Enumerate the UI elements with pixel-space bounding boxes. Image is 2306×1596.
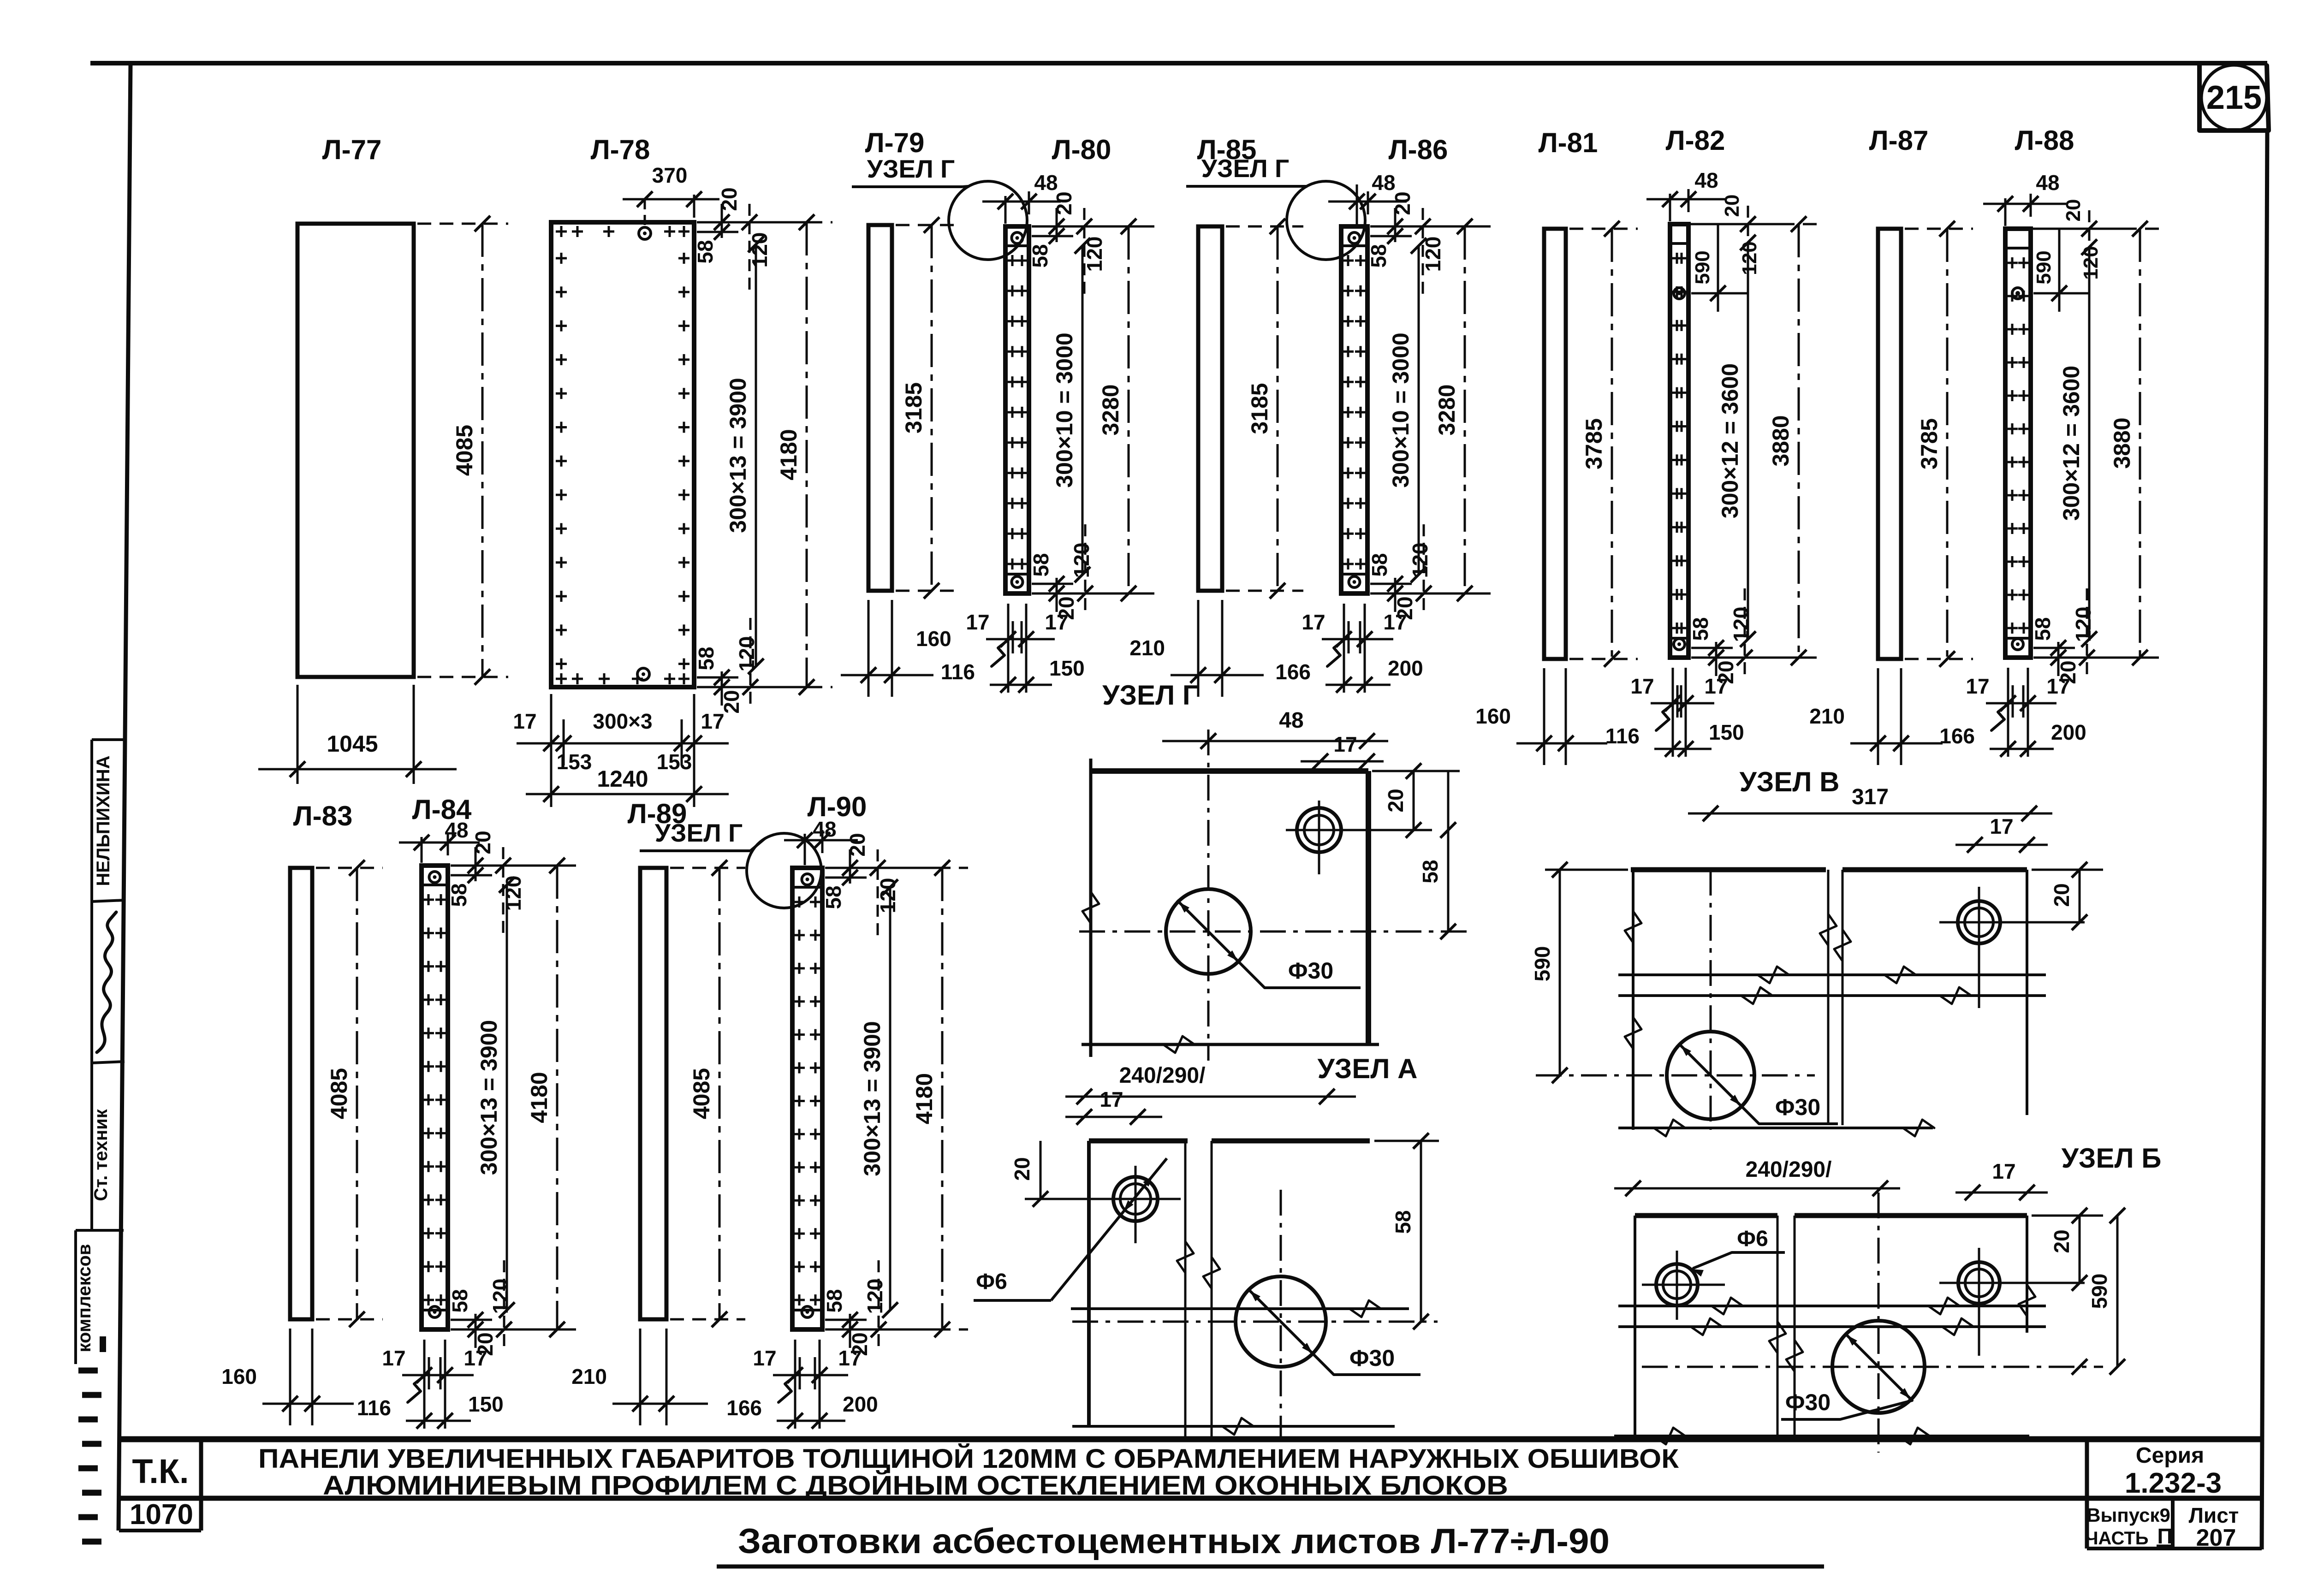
svg-text:Л-80: Л-80 xyxy=(1052,134,1111,165)
svg-text:48: 48 xyxy=(2036,171,2059,195)
cluster bottom-right L-84 xyxy=(451,1329,564,1331)
left margin wider box xyxy=(76,1229,124,1232)
svg-text:300×10 = 3000: 300×10 = 3000 xyxy=(1388,332,1414,487)
svg-text:17: 17 xyxy=(838,1346,862,1370)
svg-text:НЕЛЬПИХИНА: НЕЛЬПИХИНА xyxy=(93,755,113,886)
uzel B center vertical xyxy=(1878,1193,1880,1453)
svg-text:4180: 4180 xyxy=(776,429,802,480)
svg-text:4085: 4085 xyxy=(326,1068,352,1119)
bottom dims for L-88 xyxy=(2007,668,2009,757)
uzel A big hole F30 xyxy=(1236,1276,1326,1367)
svg-text:Ф30: Ф30 xyxy=(1775,1094,1820,1120)
svg-text:17: 17 xyxy=(1045,610,1068,634)
panel L-90 xyxy=(792,868,822,1329)
svg-text:17: 17 xyxy=(1383,610,1407,634)
svg-text:17: 17 xyxy=(1704,674,1728,698)
uzel B dim 590 xyxy=(2116,1216,2119,1367)
svg-text:Серия: Серия xyxy=(2136,1443,2204,1468)
uzel V right edge xyxy=(2026,870,2028,1115)
svg-text:3280: 3280 xyxy=(1098,384,1123,435)
svg-text:120: 120 xyxy=(501,876,525,911)
svg-text:Л-79: Л-79 xyxy=(865,127,925,158)
uzel B plate top edge xyxy=(1635,1213,1777,1218)
svg-text:58: 58 xyxy=(1391,1210,1415,1234)
svg-text:160: 160 xyxy=(916,627,951,651)
dim 48 uzel G xyxy=(1162,740,1388,742)
svg-text:150: 150 xyxy=(1709,720,1744,744)
svg-text:160: 160 xyxy=(1475,704,1511,728)
bottom dims for L-82 xyxy=(1672,668,1674,757)
svg-text:20: 20 xyxy=(845,833,869,856)
svg-text:3785: 3785 xyxy=(1916,418,1942,469)
uzel B break verticals xyxy=(1777,1216,1779,1436)
svg-text:210: 210 xyxy=(1809,704,1845,728)
svg-text:1240: 1240 xyxy=(597,766,648,792)
svg-text:20: 20 xyxy=(1010,1157,1034,1181)
uzel B left edge xyxy=(1634,1216,1636,1436)
svg-text:17: 17 xyxy=(513,709,536,733)
svg-text:200: 200 xyxy=(843,1392,878,1416)
svg-text:20: 20 xyxy=(2050,1229,2074,1253)
uzel A plate left edge xyxy=(1087,1141,1091,1426)
title block 1070 box xyxy=(119,1529,201,1532)
svg-text:120: 120 xyxy=(863,1279,887,1314)
svg-text:120: 120 xyxy=(2071,607,2095,642)
svg-text:20: 20 xyxy=(471,831,495,854)
svg-text:48: 48 xyxy=(1279,708,1303,733)
svg-text:4180: 4180 xyxy=(911,1073,937,1124)
svg-text:58: 58 xyxy=(1688,617,1712,641)
svg-text:20: 20 xyxy=(717,187,741,211)
uzel V small hole xyxy=(1958,901,2000,943)
dim 300x13=3900 for L-90 xyxy=(889,887,891,1310)
svg-text:20: 20 xyxy=(1052,191,1076,215)
panel L-88 xyxy=(2005,229,2031,658)
svg-text:4180: 4180 xyxy=(526,1072,552,1123)
svg-text:116: 116 xyxy=(357,1396,391,1420)
panel L-79 xyxy=(868,225,892,591)
dim 4085 for L-83 xyxy=(316,867,383,869)
panel L-85 xyxy=(1198,226,1222,591)
svg-text:УЗЕЛ Г: УЗЕЛ Г xyxy=(867,154,955,183)
svg-text:120: 120 xyxy=(2080,246,2102,279)
svg-text:58: 58 xyxy=(694,647,718,670)
hole circle bottom L-78 xyxy=(637,668,649,680)
svg-text:П: П xyxy=(2157,1524,2172,1548)
uzel B big hole F30 xyxy=(1832,1321,1925,1413)
svg-text:17: 17 xyxy=(966,610,989,634)
svg-text:590: 590 xyxy=(1530,946,1554,982)
uzel G plate right edge xyxy=(1366,771,1371,1044)
hole circle L-82 xyxy=(1674,288,1685,299)
svg-text:УЗЕЛ Б: УЗЕЛ Б xyxy=(2062,1143,2162,1174)
dim 4180 for L-84 xyxy=(452,865,583,867)
uzel A dim 58 xyxy=(1374,1140,1439,1142)
svg-text:УЗЕЛ Г: УЗЕЛ Г xyxy=(1102,680,1198,711)
uzel G big hole F30 xyxy=(1166,889,1251,974)
svg-text:УЗЕЛ Г: УЗЕЛ Г xyxy=(1201,154,1289,183)
uzel A horizontal joint line xyxy=(1071,1307,1409,1310)
svg-text:48: 48 xyxy=(813,817,836,841)
svg-text:ПАНЕЛИ УВЕЛИЧЕННЫХ ГАБАРИТОВ Т: ПАНЕЛИ УВЕЛИЧЕННЫХ ГАБАРИТОВ ТОЛЩИНОЙ 12… xyxy=(258,1444,1679,1474)
svg-text:58: 58 xyxy=(1367,553,1391,576)
panel L-80 xyxy=(1005,226,1029,593)
uzel V plate top edge xyxy=(1631,867,1826,872)
dim 1240 for L-78 xyxy=(526,793,729,795)
svg-text:58: 58 xyxy=(1029,553,1053,576)
svg-text:48: 48 xyxy=(1034,171,1058,195)
dim 300x13=3900 for L-78 xyxy=(755,244,757,666)
svg-text:48: 48 xyxy=(1372,171,1395,195)
uzel V bottom edge xyxy=(1618,1127,1933,1129)
svg-text:17: 17 xyxy=(1630,674,1654,698)
svg-text:58: 58 xyxy=(2031,617,2055,641)
svg-text:590: 590 xyxy=(1691,250,1714,284)
svg-text:Т.К.: Т.К. xyxy=(132,1452,189,1490)
uzel G plate left edge xyxy=(1089,759,1093,1057)
dim 210 for L-87 xyxy=(1877,668,1879,765)
svg-text:48: 48 xyxy=(1694,168,1718,192)
svg-text:УЗЕЛ В: УЗЕЛ В xyxy=(1739,766,1839,797)
cluster bottom-right L-90 xyxy=(825,1329,939,1331)
svg-text:370: 370 xyxy=(652,163,688,187)
svg-text:Ст. техник: Ст. техник xyxy=(91,1109,111,1201)
uzel A F30 diameter leader xyxy=(1248,1289,1314,1355)
svg-text:Заготовки асбестоцементных лис: Заготовки асбестоцементных листов Л-77÷Л… xyxy=(738,1522,1610,1561)
dim 370 for L-78 xyxy=(644,199,646,227)
panel L-84 xyxy=(422,866,448,1329)
panel L-81 xyxy=(1544,229,1566,659)
svg-text:3880: 3880 xyxy=(2109,417,2135,469)
svg-text:210: 210 xyxy=(1129,636,1165,660)
svg-text:200: 200 xyxy=(2051,720,2086,744)
svg-text:1.232-3: 1.232-3 xyxy=(2125,1467,2222,1499)
uzel V F30 diameter leader xyxy=(1679,1044,1742,1107)
svg-text:58: 58 xyxy=(822,1289,846,1312)
svg-text:200: 200 xyxy=(1388,656,1423,680)
uzel B bottom edge xyxy=(1614,1435,2029,1437)
dim 160 for L-83 xyxy=(289,1329,291,1425)
svg-text:3785: 3785 xyxy=(1581,418,1607,469)
svg-text:17: 17 xyxy=(1100,1087,1123,1111)
title block second line xyxy=(119,1496,2262,1501)
dim 48 for L-88 xyxy=(2004,198,2007,226)
svg-text:Л-88: Л-88 xyxy=(2015,125,2074,156)
panel L-83 xyxy=(290,868,312,1319)
bottom dims for L-80 xyxy=(1007,604,1010,693)
svg-text:Ф30: Ф30 xyxy=(1288,958,1333,984)
svg-text:УЗЕЛ А: УЗЕЛ А xyxy=(1317,1053,1417,1084)
svg-text:58: 58 xyxy=(1418,860,1442,883)
uzel B right edge xyxy=(2026,1216,2028,1333)
svg-text:166: 166 xyxy=(726,1396,762,1420)
svg-text:4085: 4085 xyxy=(689,1068,714,1119)
dim 3185 for L-79 xyxy=(896,224,957,226)
uzel G vertical centerline xyxy=(1207,730,1210,1061)
svg-text:17: 17 xyxy=(701,709,724,733)
uzel V small hole centerlines xyxy=(1939,921,2085,924)
svg-text:300×13 = 3900: 300×13 = 3900 xyxy=(476,1020,502,1175)
dim 3280 for L-86 xyxy=(1371,225,1491,228)
svg-text:116: 116 xyxy=(941,660,975,684)
uzel G small hole xyxy=(1297,808,1341,852)
panel L-82 xyxy=(1670,224,1688,658)
svg-text:АЛЮМИНИЕВЫМ ПРОФИЛЕМ С ДВОЙНЫМ: АЛЮМИНИЕВЫМ ПРОФИЛЕМ С ДВОЙНЫМ ОСТЕКЛЕНИ… xyxy=(323,1471,1508,1501)
svg-text:Ф6: Ф6 xyxy=(1737,1227,1768,1251)
uzel B F6 leader xyxy=(1694,1252,1732,1268)
uzel B big hole centerline xyxy=(1642,1366,2103,1368)
bottom dims for L-90 xyxy=(794,1340,796,1429)
svg-text:240/290/: 240/290/ xyxy=(1746,1157,1832,1182)
uzel A bottom edge xyxy=(1072,1425,1395,1428)
svg-text:317: 317 xyxy=(1852,785,1889,809)
svg-text:1045: 1045 xyxy=(327,731,378,757)
uzel V dim 17 xyxy=(1955,844,2048,846)
cluster bottom-right L-88 xyxy=(2033,657,2147,659)
uzel B dim 240/290 xyxy=(1614,1187,1900,1190)
panel L-78 xyxy=(551,222,694,687)
svg-text:120: 120 xyxy=(1729,607,1753,642)
svg-text:215: 215 xyxy=(2206,79,2262,116)
uzel A dim 240/290 xyxy=(1065,1096,1356,1098)
page border top xyxy=(90,61,2267,65)
cluster bottom-right L-82 xyxy=(1691,657,1805,659)
svg-text:Л-83: Л-83 xyxy=(293,801,353,831)
uzel V horizontal joint lines xyxy=(1618,973,2046,976)
svg-text:20: 20 xyxy=(1721,195,1743,217)
dim 4085 for L-77 xyxy=(417,223,508,225)
svg-text:58: 58 xyxy=(447,883,471,907)
bottom dims for L-86 xyxy=(1343,604,1345,693)
svg-text:120: 120 xyxy=(876,878,900,914)
svg-text:20: 20 xyxy=(1391,191,1415,215)
svg-text:3185: 3185 xyxy=(1247,383,1272,434)
svg-text:300×3: 300×3 xyxy=(593,709,652,733)
dim 3785 for L-87 xyxy=(1905,228,1973,230)
svg-text:300×13 = 3900: 300×13 = 3900 xyxy=(859,1021,885,1176)
dim 48 for L-86 xyxy=(1356,184,1358,226)
panel L-89 xyxy=(640,868,666,1319)
svg-text:Ф30: Ф30 xyxy=(1785,1389,1831,1415)
dim 3785 for L-81 xyxy=(1569,228,1638,230)
uzel A plate top edge xyxy=(1089,1139,1188,1144)
uzel G small hole centerlines xyxy=(1318,801,1320,874)
dim 48 for L-82 xyxy=(1669,194,1671,221)
svg-text:58: 58 xyxy=(693,240,717,263)
svg-text:153: 153 xyxy=(557,750,592,774)
cluster top-right L-84 xyxy=(451,865,564,867)
left margin column box xyxy=(90,740,93,1230)
svg-text:ЧАСТЬ: ЧАСТЬ xyxy=(2085,1528,2148,1549)
labels 120 20 top L-82 xyxy=(1688,223,1787,225)
cluster bottom-right L-86 xyxy=(1370,593,1484,595)
svg-text:17: 17 xyxy=(464,1346,487,1370)
hole circle L-88 xyxy=(2012,288,2023,299)
svg-text:150: 150 xyxy=(1049,656,1085,680)
dim 300x12=3600 for L-82 xyxy=(1747,243,1749,639)
cluster bottom-right L-80 xyxy=(1032,593,1145,595)
dim 17 uzel G xyxy=(1301,760,1384,763)
svg-text:58: 58 xyxy=(1028,244,1052,267)
labels 120 20 top L-88 xyxy=(2031,228,2128,230)
dim 160 for L-79 xyxy=(868,600,870,697)
svg-text:4085: 4085 xyxy=(452,425,477,476)
dim 590 for L-82 xyxy=(1691,292,1748,295)
dim 3280 for L-80 xyxy=(1033,225,1154,228)
uzel V dim 20 xyxy=(2079,870,2081,922)
cluster top-right L-78 xyxy=(697,221,810,224)
dim 48 for L-84 xyxy=(421,837,423,863)
svg-text:17: 17 xyxy=(1302,610,1325,634)
title block TK box xyxy=(199,1439,203,1531)
svg-text:УЗЕЛ Г: УЗЕЛ Г xyxy=(655,819,743,847)
page border left xyxy=(119,63,131,1531)
cluster bottom-right L-78 xyxy=(697,686,810,688)
panel L-77 xyxy=(297,224,414,677)
dim 3880 for L-82 xyxy=(1692,223,1825,225)
uzel B small hole left F6 xyxy=(1656,1264,1698,1305)
svg-text:210: 210 xyxy=(571,1365,607,1388)
left margin binding dashes xyxy=(78,1368,98,1374)
svg-text:17: 17 xyxy=(753,1346,776,1370)
svg-text:17: 17 xyxy=(2046,674,2070,698)
svg-text:300×10 = 3000: 300×10 = 3000 xyxy=(1052,332,1077,487)
svg-text:20: 20 xyxy=(2062,199,2085,222)
svg-text:166: 166 xyxy=(1939,724,1975,748)
svg-text:58: 58 xyxy=(448,1289,472,1312)
uzel A small hole centerlines xyxy=(1075,1198,1181,1200)
uzel G F30 diameter leader xyxy=(1177,900,1240,963)
svg-text:48: 48 xyxy=(445,818,468,842)
svg-text:3880: 3880 xyxy=(1768,415,1794,466)
uzel G horizontal centerline xyxy=(1079,931,1467,933)
svg-text:Лист: Лист xyxy=(2189,1503,2239,1527)
dim 1045 for L-77 xyxy=(297,685,299,784)
dim 210 for L-89 xyxy=(639,1329,642,1425)
svg-text:590: 590 xyxy=(2087,1274,2111,1309)
uzel B horizontal joint lines xyxy=(1618,1305,2046,1307)
dim 4180 for L-90 xyxy=(826,867,968,869)
svg-text:300×13 = 3900: 300×13 = 3900 xyxy=(725,378,751,533)
svg-text:3280: 3280 xyxy=(1434,384,1460,435)
svg-text:комплексов: комплексов xyxy=(74,1244,95,1352)
uzel V big hole centerline xyxy=(1536,1074,1815,1077)
svg-text:1070: 1070 xyxy=(130,1499,193,1531)
sheet number circle xyxy=(2201,65,2267,131)
uzel G dim 20 xyxy=(1372,770,1460,772)
svg-text:3185: 3185 xyxy=(901,382,927,433)
uzel A dim 17 xyxy=(1065,1116,1162,1118)
seriya box divider xyxy=(2085,1439,2089,1549)
uzel A F6 leader xyxy=(1051,1158,1167,1300)
svg-text:160: 160 xyxy=(221,1365,257,1388)
left margin small dashes upper xyxy=(100,1336,106,1352)
svg-text:116: 116 xyxy=(1605,724,1640,748)
vypusk box lines xyxy=(2087,1547,2262,1550)
svg-text:Л-82: Л-82 xyxy=(1666,125,1725,156)
svg-text:20: 20 xyxy=(1384,789,1408,812)
left margin signature xyxy=(97,912,116,1052)
svg-text:120: 120 xyxy=(1738,241,1761,275)
uzel V dim 317 xyxy=(1688,813,2052,815)
svg-text:150: 150 xyxy=(468,1392,504,1416)
uzel B F30 diameter leader xyxy=(1845,1333,1912,1400)
svg-text:Л-87: Л-87 xyxy=(1869,125,1929,156)
cluster top-right L-90 xyxy=(825,867,939,869)
dim 3880 for L-88 xyxy=(2034,228,2166,230)
svg-text:17: 17 xyxy=(1966,674,1989,698)
svg-text:17: 17 xyxy=(1990,814,2013,838)
uzel B dim 20 xyxy=(2079,1216,2081,1283)
svg-text:58: 58 xyxy=(1367,244,1391,267)
uzel A big hole centerlines xyxy=(1072,1321,1438,1323)
svg-text:Л-86: Л-86 xyxy=(1389,134,1448,165)
svg-text:Л-81: Л-81 xyxy=(1539,127,1598,158)
dim 48 for L-90 xyxy=(804,834,806,865)
svg-text:Выпуск9: Выпуск9 xyxy=(2086,1504,2170,1526)
page border right xyxy=(2262,131,2267,1549)
hole circle top L-78 xyxy=(639,227,651,239)
uzel B dim 17 xyxy=(1955,1192,2048,1194)
panel L-87 xyxy=(1878,229,1901,659)
svg-text:300×12 = 3600: 300×12 = 3600 xyxy=(2058,366,2084,521)
bottom dims 17 300x3 17 for L-78 xyxy=(550,694,553,807)
dim 590 for L-88 xyxy=(2033,292,2089,295)
svg-text:17: 17 xyxy=(1333,732,1357,756)
svg-text:17: 17 xyxy=(382,1346,405,1370)
subtitle underline xyxy=(717,1565,1824,1569)
svg-text:17: 17 xyxy=(1992,1159,2015,1183)
svg-text:Л-78: Л-78 xyxy=(591,134,650,165)
svg-text:Ф30: Ф30 xyxy=(1349,1345,1395,1371)
uzel G plate top edge xyxy=(1091,768,1368,774)
bottom dims for L-84 xyxy=(423,1340,426,1429)
panel L-86 xyxy=(1341,226,1367,593)
dim 210 for L-85 xyxy=(1197,600,1200,697)
uzel B small hole right xyxy=(1958,1262,2000,1304)
uzel A small hole F6 xyxy=(1113,1177,1158,1221)
title block top line xyxy=(119,1436,2262,1442)
svg-text:20: 20 xyxy=(2050,883,2074,907)
cluster top-right L-80 xyxy=(1032,225,1145,228)
svg-text:58: 58 xyxy=(821,885,845,909)
svg-text:240/290/: 240/290/ xyxy=(1119,1063,1206,1088)
dim 48 for L-80 xyxy=(1004,196,1007,224)
svg-text:300×12 = 3600: 300×12 = 3600 xyxy=(1717,363,1743,518)
dim 3185 for L-85 xyxy=(1226,225,1303,228)
dim 300x13=3900 for L-84 xyxy=(506,885,508,1310)
dim 300x10=3000 for L-86 xyxy=(1418,246,1420,575)
dim 300x12=3600 for L-88 xyxy=(2088,247,2091,639)
dim 160 for L-81 xyxy=(1543,668,1545,765)
uzel A dim 20 left xyxy=(1040,1141,1042,1199)
svg-text:153: 153 xyxy=(657,750,692,774)
sheet number box 215 xyxy=(2199,65,2269,131)
uzel V center vertical xyxy=(1710,870,1712,1130)
dim 4085 for L-89 xyxy=(670,867,745,869)
cluster top-right L-86 xyxy=(1370,225,1484,228)
uzel V dim 590 xyxy=(1545,869,1628,871)
uzel V big hole F30 xyxy=(1667,1032,1754,1119)
uzel V left edge xyxy=(1632,870,1634,1130)
uzel V break verticals xyxy=(1827,870,1830,1125)
svg-text:Л-77: Л-77 xyxy=(322,134,382,165)
svg-text:166: 166 xyxy=(1275,660,1311,684)
dim 300x10=3000 for L-80 xyxy=(1082,246,1084,575)
svg-text:590: 590 xyxy=(2033,250,2055,284)
uzel G dim 58 xyxy=(1447,771,1450,931)
uzel G plate bottom edge xyxy=(1082,1043,1379,1046)
